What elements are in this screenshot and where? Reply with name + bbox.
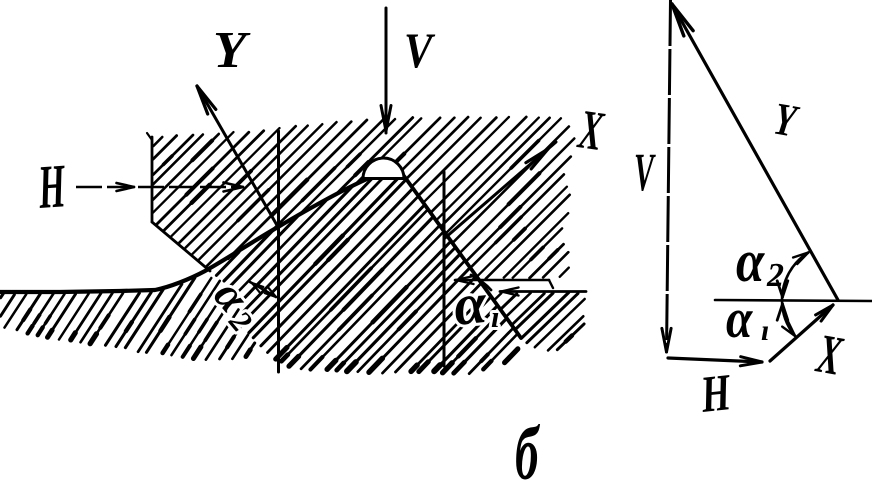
svg-text:X: X [574,98,609,164]
svg-text:α: α [726,289,753,350]
svg-text:Y: Y [770,93,802,147]
svg-text:б: б [515,412,540,480]
svg-text:V: V [404,24,436,79]
svg-text:2: 2 [766,257,784,294]
svg-text:H: H [697,363,734,423]
svg-text:α: α [736,228,765,295]
svg-text:ı: ı [761,314,769,347]
svg-text:H: H [35,150,68,221]
svg-text:V: V [634,143,656,202]
svg-text:X: X [811,322,848,388]
svg-text:Y: Y [213,20,251,79]
